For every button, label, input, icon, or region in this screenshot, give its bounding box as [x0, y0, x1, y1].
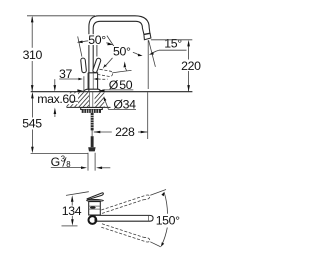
arrow 310 top — [31, 16, 34, 23]
arrow 134 bottom — [71, 219, 74, 226]
base escutcheon — [83, 89, 101, 91]
svg-text:50°: 50° — [88, 33, 106, 47]
spout outlet axis line (15 deg) — [149, 40, 156, 67]
svg-text:max.60: max.60 — [37, 92, 76, 106]
220 top extension line — [151, 39, 192, 41]
diameter 34 arrow — [104, 97, 107, 102]
max.60 bottom arrow — [54, 114, 56, 117]
G 3/8 right-side arrow — [96, 167, 102, 170]
swivel 150 arc — [164, 193, 167, 214]
G3/8 end fitting — [88, 147, 95, 151]
dashed swivel position lower — [101, 227, 146, 242]
body housing — [88, 73, 98, 89]
dimension 310 line — [31, 17, 33, 48]
body inner pipe lines — [88, 73, 90, 90]
37 left-pointing arrow at pipe — [94, 78, 98, 81]
dimension 228 line — [94, 131, 112, 133]
side view lever collar — [86, 199, 104, 202]
hose neck — [91, 130, 93, 136]
svg-text:50°: 50° — [113, 45, 131, 59]
spout outer outline — [89, 16, 150, 92]
svg-text:545: 545 — [22, 117, 42, 131]
arrow 545 bottom — [31, 147, 34, 154]
spout inner outline — [93, 21, 144, 72]
max.60 leader line — [71, 100, 78, 102]
lever left position — [81, 58, 87, 73]
lever axis vertical segment — [96, 45, 98, 57]
G 3/8 underline with right arrow — [51, 167, 83, 169]
up arrow on handle leader — [124, 61, 127, 67]
dimension 220 line — [188, 45, 190, 60]
545 bottom extension line — [31, 152, 89, 154]
arrow 220 top — [187, 40, 190, 47]
angle 50 first label — [87, 34, 107, 45]
diameter 34 underline leader — [109, 109, 137, 111]
lever right position — [92, 58, 101, 73]
countertop deck bottom line — [67, 106, 111, 108]
max.60 top arrow — [54, 79, 56, 85]
swivel joint ring — [89, 216, 97, 224]
svg-text:15°: 15° — [164, 37, 182, 51]
arrow arc upper — [161, 192, 164, 196]
deck hatching left zone — [58, 92, 118, 108]
dimension max.60 label — [37, 93, 79, 104]
svg-text:220: 220 — [181, 59, 201, 73]
body ring detail — [90, 206, 96, 209]
angle 50 second label — [112, 46, 134, 57]
50 first right arrow — [106, 43, 110, 44]
svg-text:150°: 150° — [156, 214, 180, 228]
dashed swivel position upper — [101, 195, 146, 210]
spout bar tip tick — [148, 215, 150, 221]
dashed handle collar — [98, 78, 108, 80]
50 second leader to dashed handle — [105, 58, 113, 67]
angle 15 arc arrow at axis line — [153, 50, 159, 52]
swivel arc extension upper — [150, 190, 166, 196]
arrow 545 top — [31, 92, 34, 99]
diameter 50 right arrow at base — [98, 89, 105, 92]
228 right extension line — [147, 92, 149, 139]
134 top extension line — [66, 192, 89, 196]
diameter 50 left arrow at base — [77, 89, 84, 92]
side view body — [89, 202, 101, 215]
svg-text:G: G — [51, 155, 60, 169]
svg-text:228: 228 — [115, 125, 135, 139]
spout tube seam — [144, 33, 150, 34]
mounting nut — [82, 110, 101, 113]
arrow 220 bottom — [187, 85, 190, 92]
50 second right arc to vertical line — [133, 52, 139, 54]
dimension 134 line — [71, 201, 73, 206]
diameter 50 underline — [103, 89, 133, 91]
lever axis line right — [107, 36, 115, 49]
arrow 228 right — [141, 131, 148, 134]
spout tip vertical reference line — [147, 40, 149, 89]
arrow arc lower — [161, 242, 164, 247]
threaded shank upper — [91, 113, 94, 130]
svg-text:134: 134 — [62, 204, 82, 218]
dashed handle leader line — [112, 70, 131, 73]
50 first left arrow — [82, 41, 88, 42]
G 3/8 extension lines — [87, 153, 89, 171]
arrow 228 left — [94, 131, 101, 134]
arrow 134 top — [71, 195, 74, 202]
arrow 310 bottom — [31, 85, 34, 92]
countertop deck top line — [31, 91, 193, 93]
lever axis line left — [78, 36, 82, 56]
spout bar — [95, 215, 153, 221]
mounting washer — [81, 108, 103, 110]
15 label underline — [159, 49, 187, 51]
shank lines through deck — [88, 92, 90, 108]
top extension line (310 reference) — [27, 15, 95, 17]
dimension 545 line — [31, 96, 33, 118]
swivel arc extension lower — [150, 242, 161, 247]
label 150 — [155, 215, 181, 226]
aerator (spout tip) — [144, 34, 151, 40]
side view lever — [87, 193, 103, 200]
hose lower — [91, 136, 94, 147]
37 dimension line + right arrow — [59, 78, 78, 80]
svg-text:310: 310 — [23, 48, 43, 62]
134 bottom extension line — [62, 225, 78, 227]
37 extension line — [83, 76, 85, 91]
dashed handle (side position) — [96, 69, 113, 77]
